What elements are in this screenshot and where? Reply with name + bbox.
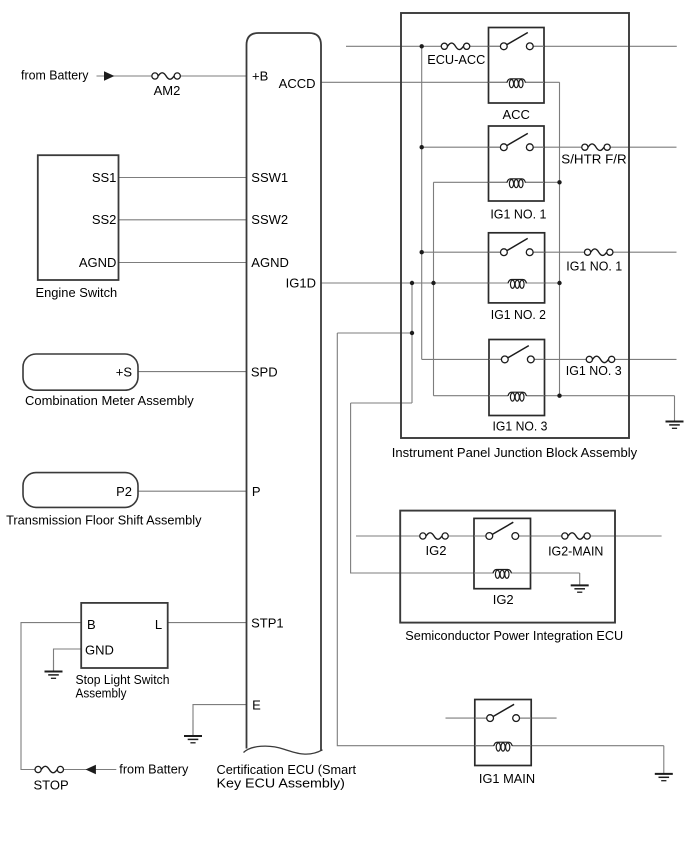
svg-text:SPD: SPD [251,364,278,379]
svg-text:Semiconductor Power Integratio: Semiconductor Power Integration ECU [405,628,623,643]
svg-text:P: P [252,484,261,499]
svg-text:SSW1: SSW1 [251,170,288,185]
svg-text:STOP: STOP [34,777,69,792]
svg-text:Engine Switch: Engine Switch [36,285,118,300]
svg-text:IG1 NO. 3: IG1 NO. 3 [493,418,548,433]
svg-text:AGND: AGND [251,255,289,270]
svg-text:S/HTR F/R: S/HTR F/R [561,151,626,166]
svg-text:GND: GND [85,642,114,657]
svg-text:IG1 NO. 3: IG1 NO. 3 [566,363,622,378]
svg-text:IG1 NO. 1: IG1 NO. 1 [490,206,546,221]
svg-text:IG1 NO. 1: IG1 NO. 1 [566,259,622,274]
svg-text:P2: P2 [116,484,132,499]
svg-text:IG1D: IG1D [286,276,316,291]
svg-text:B: B [87,617,96,632]
svg-text:from Battery: from Battery [21,68,89,83]
svg-text:AGND: AGND [79,255,117,270]
svg-text:+S: +S [116,364,133,379]
svg-text:ECU-ACC: ECU-ACC [427,52,485,67]
svg-text:Transmission Floor Shift Assem: Transmission Floor Shift Assembly [6,513,202,528]
svg-text:Key ECU Assembly): Key ECU Assembly) [217,775,345,790]
svg-text:+B: +B [252,69,268,84]
svg-text:from Battery: from Battery [119,762,188,777]
svg-text:IG1 NO. 2: IG1 NO. 2 [491,307,546,322]
svg-text:SS2: SS2 [92,212,117,227]
svg-text:IG2-MAIN: IG2-MAIN [548,543,603,558]
svg-text:IG2: IG2 [493,592,514,607]
svg-text:ACCD: ACCD [279,76,316,91]
svg-text:IG2: IG2 [426,543,447,558]
svg-text:STP1: STP1 [251,615,284,630]
svg-text:L: L [155,617,162,632]
svg-text:Combination Meter Assembly: Combination Meter Assembly [25,393,194,408]
svg-text:Instrument Panel Junction Bloc: Instrument Panel Junction Block Assembly [392,445,638,460]
svg-text:AM2: AM2 [154,83,181,98]
svg-text:ACC: ACC [502,107,529,122]
svg-text:SS1: SS1 [92,170,117,185]
svg-text:IG1 MAIN: IG1 MAIN [479,771,535,786]
svg-text:Assembly: Assembly [76,686,127,701]
svg-text:SSW2: SSW2 [251,212,288,227]
svg-text:E: E [252,697,261,712]
